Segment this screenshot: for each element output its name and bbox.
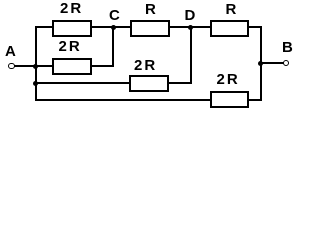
terminal A xyxy=(8,63,15,70)
label R for R2 xyxy=(145,4,156,15)
label 2R for R5 xyxy=(134,60,157,71)
junction dot at B tap xyxy=(258,61,263,66)
wire to terminal B xyxy=(261,62,284,64)
resistor R1 value 2R xyxy=(52,20,92,37)
resistor R6 value 2R (bottom branch) xyxy=(210,91,249,108)
node D junction dot xyxy=(188,25,193,30)
right vertical wire xyxy=(260,26,262,101)
node C vertical wire xyxy=(112,26,114,67)
label 2R for R4 xyxy=(59,41,82,52)
wire R5 to node D line xyxy=(168,82,192,84)
left bus vertical wire xyxy=(35,26,37,101)
node C junction dot xyxy=(111,25,116,30)
resistor R5 value 2R (middle branch) xyxy=(129,75,169,92)
junction dot on bus at A wire xyxy=(33,64,38,69)
label A xyxy=(5,46,16,57)
wire bottom: bus to R6 xyxy=(35,99,210,101)
junction dot on bus at middle branch xyxy=(33,81,38,86)
wire R3 to right line top corner xyxy=(248,26,262,28)
label D xyxy=(185,10,196,21)
label C xyxy=(109,10,120,21)
label 2R for R6 xyxy=(217,74,240,85)
wire R2 to node D and R3 xyxy=(169,26,210,28)
node D vertical wire xyxy=(190,26,192,84)
wire R6 to right line bottom corner xyxy=(248,99,262,101)
label B xyxy=(282,42,293,53)
wire A to left bus and R4 xyxy=(14,65,53,67)
wire bus to R5 (middle branch) xyxy=(35,82,130,84)
label R for R3 xyxy=(226,4,237,15)
wire R1 to node C and R2 xyxy=(91,26,131,28)
label 2R for R1 xyxy=(60,3,83,14)
terminal B xyxy=(283,60,290,67)
resistor R3 value R xyxy=(210,20,250,37)
wire R4 right to node C line xyxy=(91,65,114,67)
wire bus top corner to R1 xyxy=(35,26,54,28)
resistor R4 value 2R (lower-left parallel) xyxy=(52,58,92,75)
resistor R2 value R xyxy=(130,20,170,37)
